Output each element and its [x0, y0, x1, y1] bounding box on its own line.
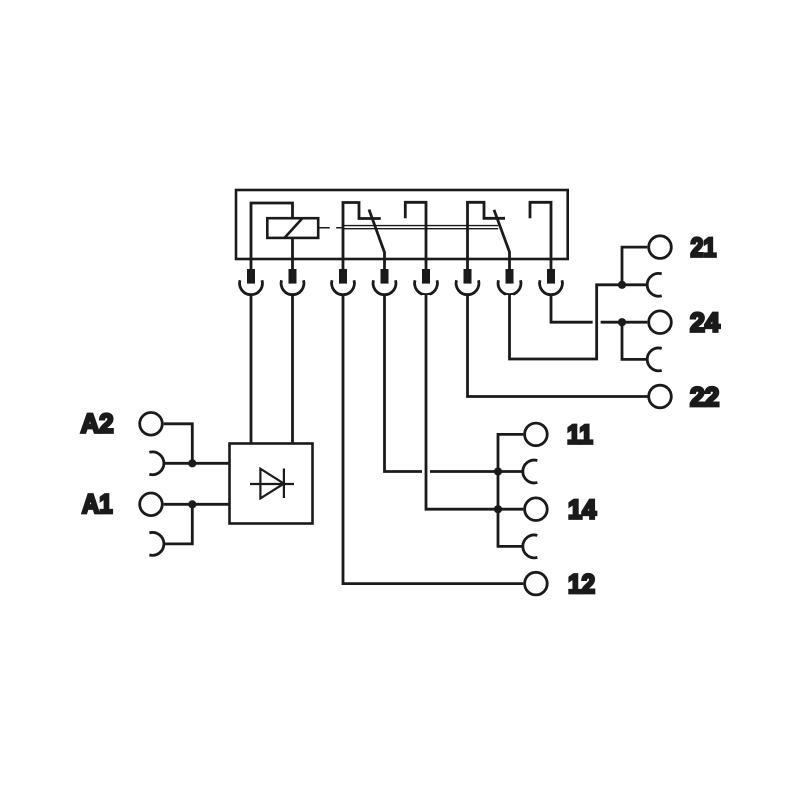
contact 1 moving arm	[369, 210, 385, 259]
wire pin3 to terminal 12	[343, 295, 523, 584]
contact 2 NO fixed contact	[530, 202, 551, 258]
socket cup 5	[415, 280, 438, 294]
socket cup 1	[240, 280, 263, 294]
coil feed wire from pin 1	[251, 203, 293, 259]
socket cup 2	[281, 280, 304, 294]
contact 1 NC fixed contact	[343, 203, 381, 259]
pin blade 4	[381, 269, 389, 284]
node 21	[618, 281, 626, 289]
socket cup 4	[373, 280, 396, 294]
wire pin7 to node 21 (cased)	[510, 285, 623, 359]
svg-text:24: 24	[690, 308, 720, 338]
terminal circle 22	[649, 385, 672, 408]
pin blade 5	[422, 269, 430, 284]
terminal circle A1	[140, 493, 163, 516]
node 11	[494, 467, 502, 475]
node A2	[188, 459, 196, 467]
node 14	[494, 505, 502, 513]
terminal circle 24	[649, 311, 672, 334]
svg-text:22: 22	[690, 382, 719, 412]
terminal circle 14	[525, 498, 548, 521]
relay socket outline	[236, 190, 568, 259]
socket arc A2	[149, 452, 164, 475]
pin stub 5	[425, 259, 428, 270]
wire pin6 to terminal 22	[468, 295, 649, 397]
terminal circle 21	[649, 236, 672, 259]
contact 1 NO fixed contact	[405, 202, 426, 258]
socket arc A1	[149, 533, 164, 556]
pin stub 8	[550, 259, 553, 270]
pin stub 2	[291, 259, 294, 270]
pin blade 2	[289, 269, 297, 284]
terminal circle 11	[525, 423, 548, 446]
pin blade 7	[506, 269, 514, 284]
socket arc 24	[647, 348, 662, 371]
wire socket A2 to diode box	[164, 462, 230, 465]
contact 2 moving arm	[494, 210, 510, 259]
wire pin4 to node 11 and socket 11	[385, 295, 523, 472]
svg-text:21: 21	[691, 232, 717, 262]
socket cup 3	[332, 280, 355, 294]
wire terminal 11 to node 11 to node 14	[498, 434, 523, 509]
node 24	[618, 318, 626, 326]
mechanical link dashes	[318, 227, 341, 229]
socket cup 6	[456, 280, 479, 294]
pin stub 4	[383, 259, 386, 270]
wire node 24 to socket 24	[622, 322, 646, 359]
wire terminal A2 to node A2	[164, 424, 193, 464]
wire socket A1 to node A1	[164, 504, 192, 544]
terminal circle 12	[525, 572, 548, 595]
socket arc 11	[523, 460, 538, 483]
pin stub 6	[466, 259, 469, 270]
node A1	[188, 500, 196, 508]
diode D1	[250, 469, 294, 499]
socket cup 7	[498, 280, 521, 294]
svg-text:A2: A2	[81, 409, 114, 439]
pin blade 1	[247, 269, 255, 284]
svg-text:14: 14	[568, 495, 596, 525]
mechanical link double bar	[342, 226, 499, 229]
wire terminal 21 to node 21 to socket 21	[622, 247, 647, 285]
svg-text:11: 11	[567, 420, 593, 450]
coil K1	[267, 218, 318, 238]
coil diagonal	[285, 218, 303, 238]
terminal circle A2	[140, 413, 163, 436]
coil bottom wire to pin 2	[291, 238, 294, 259]
wire pin5 to node 14 (cased)	[426, 295, 498, 509]
pin stub 1	[250, 259, 253, 270]
pin blade 3	[339, 269, 347, 284]
socket arc 21	[647, 273, 662, 296]
socket cup 8	[540, 280, 563, 294]
diode module U1	[230, 444, 313, 524]
wire node 14 to socket 14	[498, 509, 523, 546]
wire pin8 to node 24 and terminal 24	[551, 295, 647, 322]
svg-text:12: 12	[568, 569, 595, 599]
socket arc 14	[523, 535, 538, 558]
pin blade 6	[464, 269, 472, 284]
wire terminal A1 to diode box	[164, 503, 230, 506]
svg-text:A1: A1	[82, 489, 113, 519]
contact 2 NC fixed contact	[468, 202, 506, 258]
wire pin2 to diode box	[291, 295, 294, 444]
pin stub 3	[342, 259, 345, 270]
wire pin1 to diode box	[250, 295, 253, 444]
wire node 14 to terminal 14	[498, 508, 523, 511]
pin blade 8	[547, 269, 555, 284]
pin stub 7	[508, 259, 511, 270]
